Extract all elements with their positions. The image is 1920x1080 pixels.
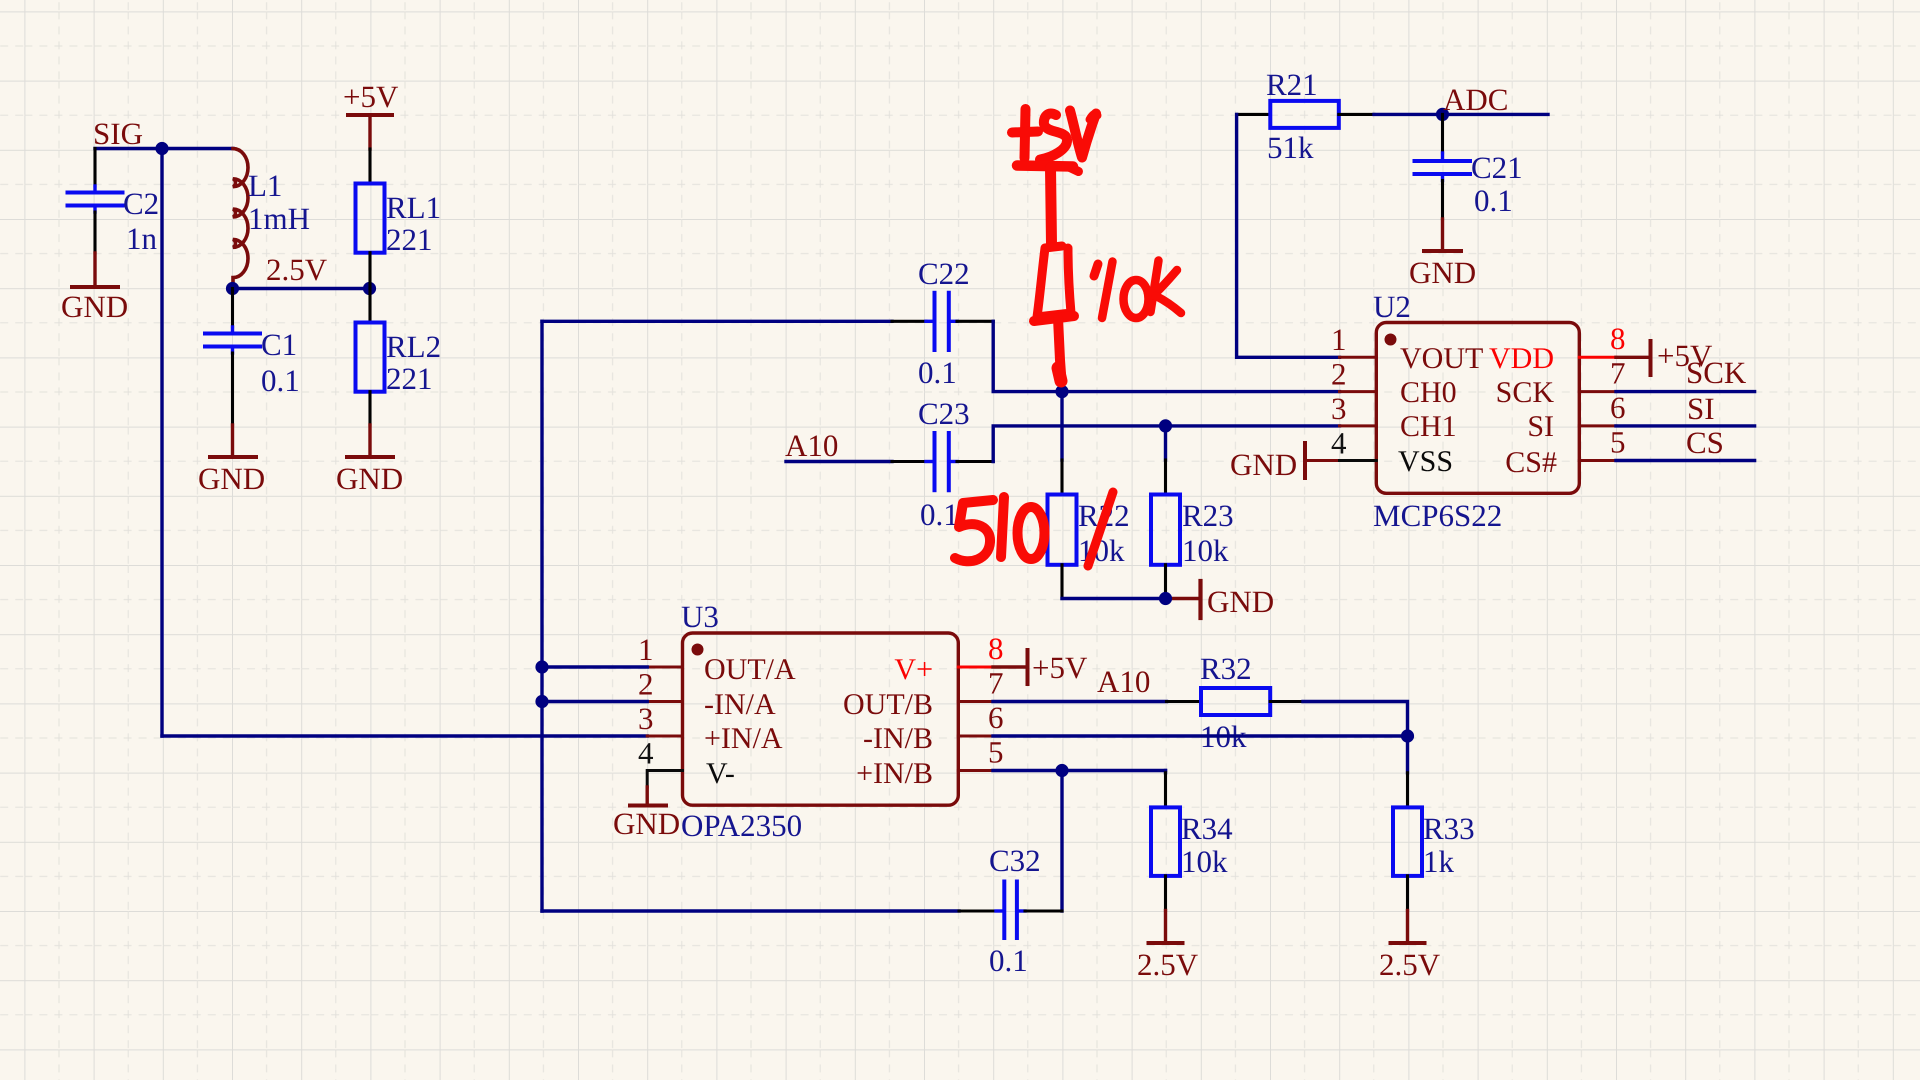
svg-text:GND: GND [336,461,403,496]
svg-text:R23: R23 [1182,498,1234,533]
svg-text:VDD: VDD [1489,342,1554,375]
svg-text:ADC: ADC [1443,82,1508,117]
svg-text:V+: V+ [894,653,933,686]
svg-text:0.1: 0.1 [261,363,300,398]
svg-text:A10: A10 [1097,664,1150,699]
svg-text:0.1: 0.1 [918,355,957,390]
pin 6 SI [1527,390,1625,443]
capacitor C21 [1415,114,1523,219]
power +5V (U3 pin 8) [993,650,1088,685]
ground GND (C1) [198,425,265,496]
svg-text:2.5V: 2.5V [1379,947,1441,982]
svg-text:CH0: CH0 [1400,376,1457,409]
svg-text:R34: R34 [1181,811,1233,846]
resistor R23 [1151,426,1234,599]
ground GND (C2) [61,253,128,324]
svg-text:2.5V: 2.5V [1137,947,1199,982]
RED INK ANNOTATIONS [955,109,1181,566]
svg-text:CH1: CH1 [1400,410,1457,443]
pin 1 VOUT [1331,322,1483,375]
U2 pin-1 dot [1385,334,1397,346]
ground GND bar (R22/R23) [1201,581,1275,619]
ink 510 text [955,500,993,561]
svg-text:VSS: VSS [1398,445,1453,478]
svg-text:6: 6 [1610,390,1626,425]
wire OUT/B to R32 [993,700,1167,703]
svg-text:C23: C23 [918,396,970,431]
wire down to C32 [1060,771,1063,912]
ground GND bar (U2 pin 4) [1230,443,1305,482]
svg-text:GND: GND [1207,584,1274,619]
svg-text:C2: C2 [123,186,159,221]
wire R21 to VOUT [1237,114,1340,357]
svg-text:OPA2350: OPA2350 [681,808,802,843]
svg-text:CS: CS [1686,425,1724,460]
svg-text:CS#: CS# [1505,446,1557,479]
svg-text:-IN/B: -IN/B [863,722,933,755]
svg-text:A10: A10 [785,428,838,463]
ink +5V plus sign [1025,109,1026,158]
svg-text:1: 1 [638,632,654,667]
svg-text:5: 5 [988,735,1004,770]
svg-text:2: 2 [1331,357,1347,392]
svg-text:GND: GND [198,461,265,496]
op-amp U3 body [683,633,959,805]
ground GND (C21) [1409,219,1476,290]
junction added resistor node [1055,385,1068,398]
wire SIG vertical down to +IN/A [160,149,163,737]
wire +IN/B [993,769,1166,772]
power +5V (U2 pin 8) [1616,338,1713,375]
svg-text:U3: U3 [681,599,719,634]
ink +5V V glyph [1070,111,1096,158]
capacitor C32 [959,843,1062,978]
svg-text:R21: R21 [1266,67,1318,102]
svg-text:8: 8 [1610,321,1626,356]
wire bottom feedback [542,909,959,912]
svg-text:C1: C1 [261,327,297,362]
power 2.5V (R34) [1137,911,1199,983]
svg-text:SCK: SCK [1496,376,1555,409]
pin 4 V- [638,736,735,791]
svg-text:RL1: RL1 [386,190,441,225]
svg-text:MCP6S22: MCP6S22 [1373,498,1502,533]
wire C22 left [542,320,892,323]
svg-text:SI: SI [1527,410,1554,443]
wire C23 to CH1 [993,426,1339,462]
svg-text:2.5V: 2.5V [266,252,328,287]
svg-text:C22: C22 [918,256,970,291]
wire CS [1616,459,1755,462]
svg-text:3: 3 [638,701,654,736]
svg-text:1k: 1k [1423,844,1455,879]
U3 pin-1 dot [692,644,704,656]
junction bottom node [1159,592,1172,605]
svg-text:0.1: 0.1 [920,497,959,532]
svg-text:C21: C21 [1471,150,1523,185]
wire C22 to CH0 [993,321,1339,391]
wire -IN/A [542,700,647,703]
svg-text:0.1: 0.1 [1474,183,1513,218]
svg-text:51k: 51k [1267,130,1314,165]
junction +IN/B / C32 [1055,764,1068,777]
svg-text:6: 6 [988,700,1004,735]
svg-text:1n: 1n [126,221,158,256]
pin 8 V+ [894,631,1003,686]
svg-text:8: 8 [988,631,1004,666]
svg-text:OUT/A: OUT/A [704,653,796,686]
ink wire stroke to node [1058,318,1061,374]
svg-text:+5V: +5V [1032,650,1088,685]
pin 2 -IN/A [638,667,776,722]
svg-text:+IN/A: +IN/A [704,722,783,755]
ink wire stroke down [1051,168,1052,244]
svg-text:1mH: 1mH [248,201,310,236]
svg-text:4: 4 [1331,426,1347,461]
wire R32 to R33 node [1303,702,1408,737]
svg-text:2: 2 [638,667,654,702]
capacitor C2 [68,149,160,257]
wire feedback vertical [540,321,543,911]
ink power bar stroke [1017,166,1073,167]
junction ADC [1436,108,1449,121]
resistor RL1 [356,149,442,289]
svg-text:1: 1 [1331,322,1347,357]
pin 7 SCK [1496,356,1626,410]
svg-text:L1: L1 [248,168,282,203]
wire SIG horizontal [95,147,233,150]
pin 7 OUT/B [843,666,1004,722]
resistor R32 [1167,651,1304,754]
svg-text:3: 3 [1331,391,1347,426]
wire 2.5V [233,287,370,290]
svg-text:OUT/B: OUT/B [843,688,933,721]
wire SCK [1616,390,1755,393]
svg-text:C32: C32 [989,843,1041,878]
capacitor C23 [892,396,993,532]
junction R23 node [1159,419,1172,432]
wire A10 [786,460,892,463]
svg-text:4: 4 [638,736,654,771]
svg-text:GND: GND [1409,255,1476,290]
power +5V (RL1) [343,79,399,149]
pin 5 +IN/B [856,735,1003,791]
svg-text:-IN/A: -IN/A [704,688,776,721]
svg-text:U2: U2 [1373,289,1411,324]
pin 5 CS# [1505,425,1625,480]
junction SIG [155,142,168,155]
capacitor C22 [892,256,993,390]
pin 6 -IN/B [863,700,1004,755]
junction R32/R33/-IN\B [1401,729,1414,742]
svg-text:10k: 10k [1182,533,1229,568]
svg-text:221: 221 [386,222,433,257]
wire SI [1616,424,1755,427]
svg-text:R32: R32 [1200,651,1252,686]
ink 10k text [1094,264,1098,276]
svg-text:VOUT: VOUT [1400,342,1483,375]
resistor R33 [1393,736,1475,911]
svg-text:+5V: +5V [343,79,399,114]
ink +5V S glyph [1040,114,1067,160]
junction OUT/A feedback [535,660,548,673]
svg-text:10k: 10k [1181,844,1228,879]
pin 1 OUT/A [638,632,796,686]
inductor L1 [233,149,310,289]
wire R21 to ADC [1374,113,1548,116]
pin 8 VDD [1489,321,1626,375]
pin 4 VSS [1306,426,1453,479]
wire R22/R23 bottom [1062,597,1166,600]
svg-text:7: 7 [988,666,1004,701]
wire to U3 pin 3 [162,734,647,737]
pin 2 CH0 [1331,357,1457,410]
ground GND (RL2) [336,425,403,496]
svg-text:GND: GND [613,806,680,841]
junction -IN/A feedback [535,695,548,708]
svg-text:GND: GND [61,289,128,324]
svg-text:GND: GND [1230,447,1297,482]
junction L1/C1 [226,282,239,295]
svg-text:221: 221 [386,361,433,396]
svg-text:+IN/B: +IN/B [856,757,933,790]
svg-text:5: 5 [1610,425,1626,460]
pin 3 CH1 [1331,391,1457,443]
ground GND (U3 pin 4) [613,787,680,841]
capacitor C1 [205,289,300,426]
ink slash over R22 value [1088,492,1113,566]
svg-text:V-: V- [706,757,735,790]
svg-text:SIG: SIG [93,116,143,151]
wire -IN/B to node [993,734,1408,737]
svg-text:SCK: SCK [1686,355,1747,390]
svg-text:RL2: RL2 [386,329,441,364]
svg-text:0.1: 0.1 [989,943,1028,978]
svg-text:R33: R33 [1423,811,1475,846]
power 2.5V (R33) [1379,911,1441,983]
op-amp U2 body [1376,323,1579,494]
resistor R21 [1237,67,1374,165]
ink resistor box [1037,246,1071,317]
svg-text:7: 7 [1610,356,1626,391]
junction RL1/RL2 [363,282,376,295]
pin 3 +IN/A [638,701,783,755]
resistor R34 [1151,771,1233,911]
wire OUT/A [542,665,647,668]
resistor RL2 [356,289,442,426]
resistor R22 [1048,392,1130,599]
svg-text:SI: SI [1687,391,1715,426]
